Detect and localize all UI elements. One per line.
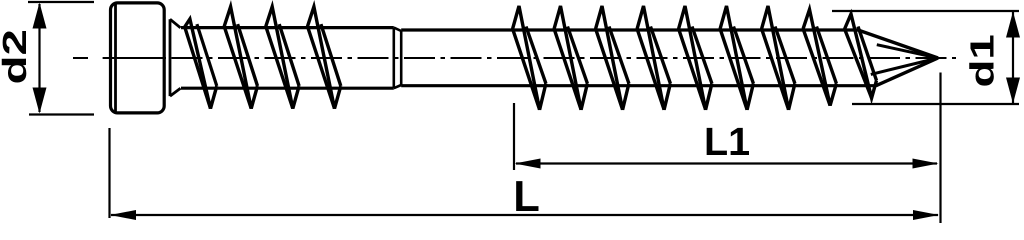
dimension L left extension line [108, 128, 110, 218]
dimension L right extension line (tip) [939, 73, 941, 224]
centerline solid segment through head [103, 57, 166, 59]
first thread section root line bottom [181, 87, 394, 90]
dimension L1 line [516, 162, 937, 164]
first partial thread tooth after head cone [184, 19, 217, 109]
thread tooth at x=231 [224, 7, 257, 109]
dimension d1 bottom extension line [852, 103, 1019, 105]
thread flank line A at x=726 [720, 29, 747, 110]
flank line C of last short tooth [858, 27, 877, 81]
shank / main thread root line top [401, 28, 858, 31]
thread flank line C at x=810 [817, 27, 837, 84]
thread flank line A at x=231 [224, 26, 251, 108]
cone chamfer top [170, 19, 181, 28]
dimension d2 top extension line [28, 1, 94, 3]
step chamfer top [394, 28, 401, 31]
tip cone lower edge [876, 58, 938, 86]
dimension L1 arrowhead left [515, 159, 541, 169]
tip inner flute line lower [871, 58, 938, 74]
thread flank line C at x=644 [651, 27, 671, 84]
dimension L1 arrowhead right [913, 159, 939, 169]
centerline left dash [73, 57, 88, 59]
first thread section root line top [181, 26, 394, 29]
thread flank line A at x=314 [308, 26, 335, 108]
dimension d2 arrowhead bottom [33, 88, 47, 114]
step chamfer bottom [394, 85, 401, 88]
flank line C of partial tooth [197, 24, 217, 86]
head inner edge line left [114, 4, 117, 113]
thread tooth at x=810 [803, 10, 836, 106]
centerline (dash-dot axis) [172, 57, 957, 59]
thread flank line C at x=560 [568, 27, 588, 84]
thread tooth at x=602 [596, 6, 629, 110]
thread flank line A at x=810 [803, 29, 830, 106]
thread tooth at x=768 [762, 6, 795, 110]
dimension d1 top extension line [832, 10, 1019, 12]
thread tooth at x=726 [720, 6, 753, 110]
thread flank line A at x=519 [513, 29, 540, 110]
thread tooth at x=644 [637, 6, 670, 110]
thread flank line C at x=519 [526, 27, 546, 84]
thread tooth at x=560 [554, 6, 587, 110]
thread flank line C at x=272 [279, 24, 299, 86]
thread flank line C at x=726 [734, 27, 754, 84]
thread flank line C at x=602 [609, 27, 629, 84]
dimension L line [111, 214, 938, 216]
screw head (cylinder head outline) [111, 3, 165, 113]
thread flank line A at x=685 [679, 29, 706, 110]
dimension d2 bottom extension line [29, 113, 94, 115]
thread tooth at x=272 [266, 7, 299, 109]
shank / main thread root line bottom [401, 84, 876, 87]
dimension d2 arrowhead top [33, 3, 47, 29]
last short thread tooth near tip [845, 14, 877, 98]
dimension L1 left extension line [513, 103, 515, 170]
thread flank line C at x=314 [321, 24, 341, 86]
dimension d2 arrow line [38, 4, 40, 112]
thread flank line A at x=560 [554, 29, 581, 110]
cone left vertical edge [169, 19, 172, 96]
flank line A of partial tooth [185, 29, 210, 109]
dimension d1 arrowhead top [1006, 12, 1020, 38]
svg-text:d1: d1 [963, 34, 1001, 87]
svg-text:L: L [513, 173, 540, 221]
flank line A of last short tooth [845, 29, 872, 98]
tip inner flute line upper [877, 45, 938, 58]
tip cone upper edge [858, 30, 938, 58]
thread flank line C at x=231 [238, 24, 258, 86]
svg-text:L1: L1 [704, 120, 750, 164]
shank step vertical line 2 [400, 31, 403, 85]
thread flank line A at x=644 [637, 29, 664, 110]
shank step vertical line 1 [392, 28, 395, 89]
svg-text:d2: d2 [0, 29, 33, 84]
thread flank line A at x=602 [596, 29, 623, 110]
thread tooth at x=314 [308, 7, 341, 109]
dimension d1 arrowhead bottom [1006, 78, 1020, 104]
thread flank line A at x=768 [762, 29, 789, 110]
cone chamfer bottom [170, 88, 181, 96]
dimension d1 arrow line [1012, 12, 1014, 103]
thread flank line C at x=768 [775, 27, 795, 84]
thread flank line A at x=272 [266, 26, 293, 108]
thread flank line C at x=685 [692, 27, 712, 84]
dimension L arrowhead right [913, 210, 939, 220]
thread tooth at x=685 [679, 6, 712, 110]
thread tooth at x=519 [513, 6, 546, 110]
dimension L arrowhead left [110, 210, 136, 220]
